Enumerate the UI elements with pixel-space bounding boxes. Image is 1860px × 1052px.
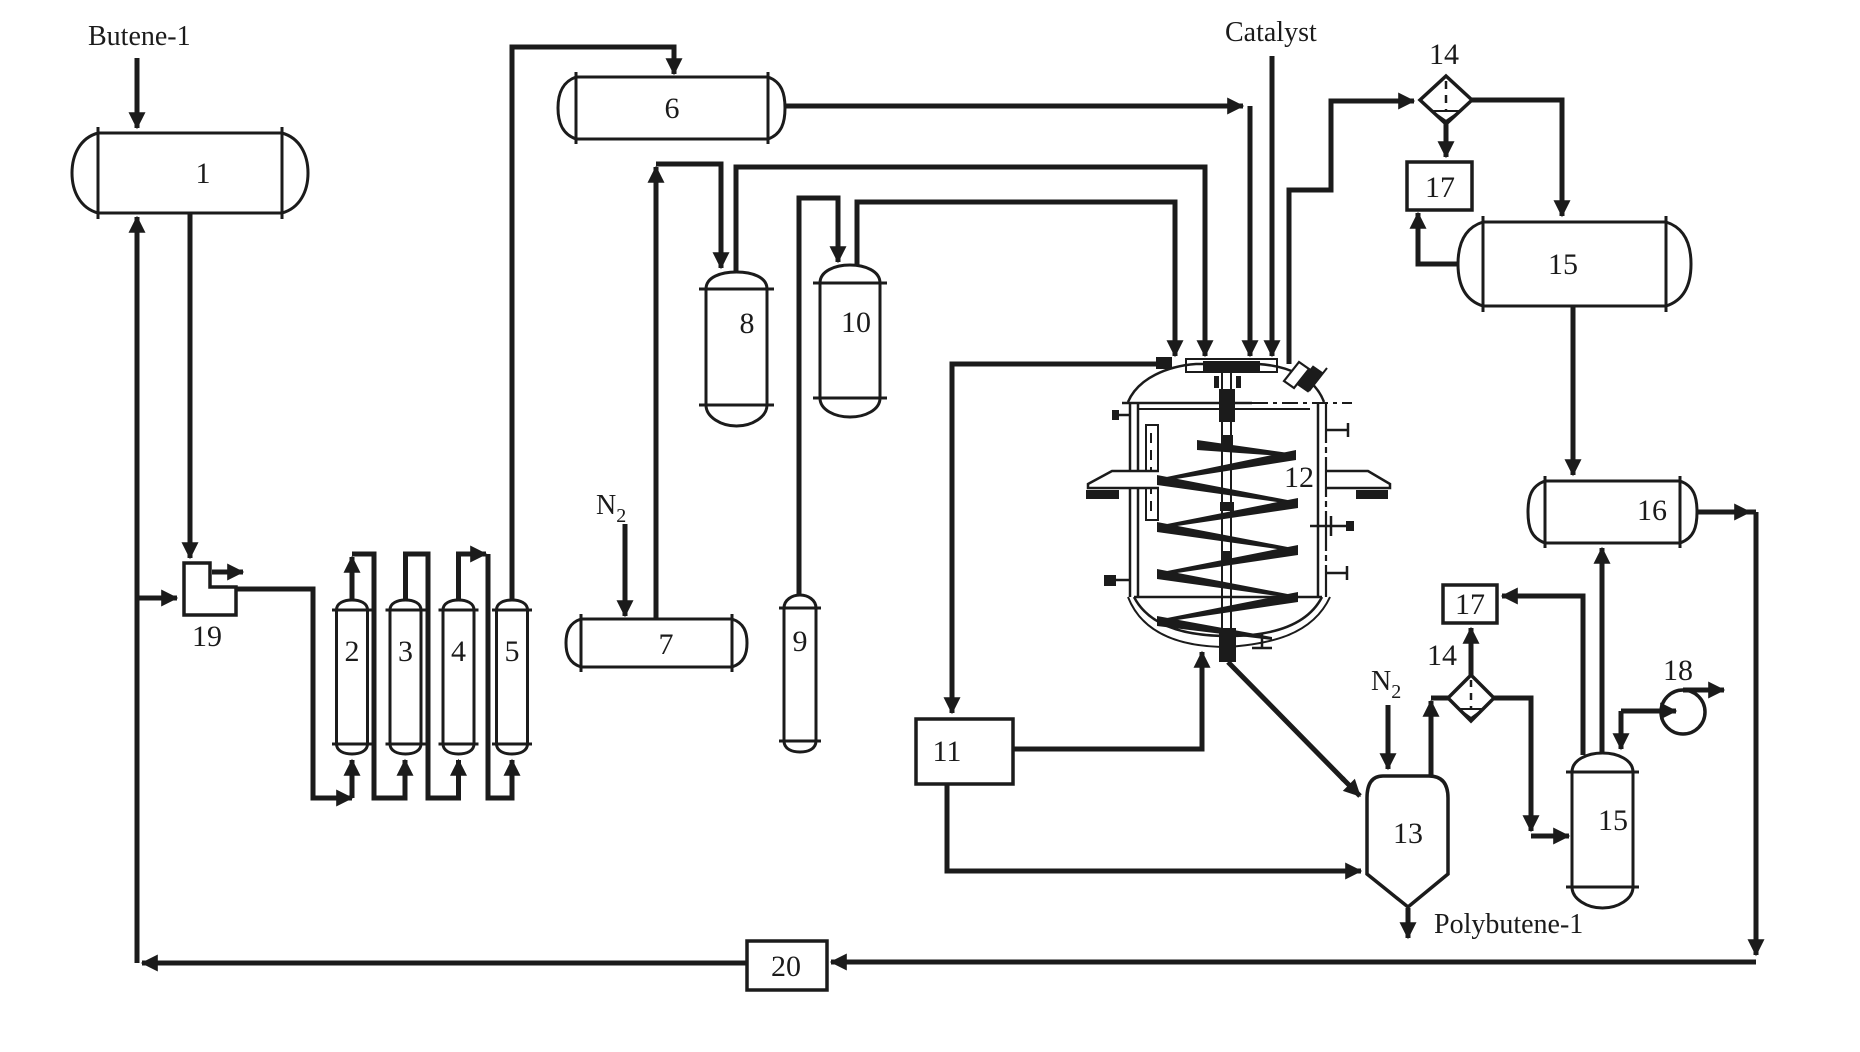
box 17 bottom [1443,585,1497,623]
wire filter14b to vessel 15b [1494,698,1531,810]
svg-text:4: 4 [451,635,466,668]
vessel 8 [699,272,774,426]
wire reactor to box 11 [952,364,1160,690]
reactor nozzle right lower [1326,566,1347,580]
wire reactor product to vessel 13 [1228,662,1344,780]
wire filter14 to vessel 15 [1472,100,1562,193]
svg-text:11: 11 [933,735,962,768]
wire column4 top to column5 bottom [459,554,466,600]
wire catalyst feed into reactor [1270,56,1275,330]
wire vessel16 to box 20 recycle [1697,510,1756,515]
column 4 [439,600,479,754]
svg-text:3: 3 [398,635,413,668]
svg-text:14: 14 [1429,38,1459,71]
wire vessel15b vapor to box 17b [1525,596,1583,755]
svg-text:N2: N2 [1371,666,1401,703]
wire box11 to vessel 13 [947,784,1338,871]
wire vessel7 to vessel8 [654,190,659,619]
wire box20 to vessel 1 recycle [165,961,747,966]
reactor nozzle left lower [1104,575,1116,586]
wire reactor gas to filter 14 [1289,101,1390,364]
wire pump suction from vessel 15b [1621,709,1652,714]
reactor support lug right [1327,471,1390,488]
wire column5 top to vessel 6 [512,47,674,600]
vessel 16 [1528,476,1697,548]
svg-text:N2: N2 [596,490,626,527]
wire vessel6 to reactor top [785,104,1220,109]
reactor nozzle right middle [1310,516,1346,536]
box 11 [916,719,1013,784]
svg-text:Butene-1: Butene-1 [88,21,191,52]
wire vessel1 to box19 [188,213,193,537]
reactor left inlet nozzle block [1156,357,1172,369]
filter 14 top [1420,76,1472,124]
svg-text:2: 2 [345,635,360,668]
box 20 [747,941,827,990]
box 19 [184,563,236,615]
wire N2 arrow into vessel 7 [623,524,628,592]
vessel 6 [558,72,785,144]
reactor nozzle right upper [1326,423,1348,437]
reactor drive hatch [1284,362,1309,388]
vessel 7 [566,614,747,672]
svg-text:9: 9 [793,625,808,658]
svg-text:19: 19 [192,620,222,653]
svg-text:14: 14 [1427,639,1457,672]
reactor bottom leg [1252,634,1272,648]
svg-text:13: 13 [1393,817,1423,850]
svg-text:Polybutene-1: Polybutene-1 [1434,909,1583,940]
agitator ribbon [1157,440,1298,640]
vessel 13 [1367,776,1448,907]
svg-text:15: 15 [1598,804,1628,837]
column 5 [492,600,532,754]
wire pump discharge [1683,688,1700,693]
svg-text:18: 18 [1663,654,1693,687]
reactor internal baffle [1146,425,1158,520]
reactor flange line [1122,402,1252,405]
svg-text:5: 5 [505,635,520,668]
arrow purge out of 19 [212,570,243,575]
svg-text:17: 17 [1455,588,1485,621]
wire Butene-1 feed arrow into vessel 1 [135,58,140,128]
wire vessel10 to reactor [857,202,1175,330]
vessel 9 [779,595,821,752]
wire column2 top to column3 bottom [350,580,355,600]
column 3 [386,600,426,754]
vessel 10 [813,265,887,417]
box 17 top [1407,162,1472,210]
svg-text:8: 8 [740,307,755,340]
wire 19 to column 2 bottom [236,589,330,798]
wire vessel8 to reactor [736,167,1205,330]
column 2 [332,600,372,754]
svg-text:17: 17 [1425,171,1455,204]
svg-text:1: 1 [196,157,211,190]
svg-text:Catalyst: Catalyst [1225,17,1317,48]
svg-text:10: 10 [841,306,871,339]
svg-text:7: 7 [659,628,674,661]
wire vessel15 to vessel16 [1571,306,1576,450]
wire N2 arrow into vessel 13 [1386,705,1391,748]
vessel 1 [72,127,308,219]
wire vessel13 to filter 14 bottom [1429,728,1434,776]
reactor bottom head [1134,596,1322,599]
vessel 15 top [1458,216,1691,312]
svg-text:12: 12 [1284,461,1314,494]
wire vessel9 to vessel10 [799,198,838,595]
reactor support lug left [1088,471,1159,488]
svg-text:6: 6 [665,92,680,125]
reactor 12 [1086,357,1390,648]
wire filter14 to box 17 [1444,124,1449,136]
reactor dome [1128,364,1324,402]
reactor nozzle left upper [1118,414,1131,417]
wire recycle tee into 19 [139,596,177,601]
reactor top plate [1186,359,1277,372]
pump 18 [1661,690,1705,734]
wire polybutene product arrow [1406,908,1411,916]
wire column3 top to column4 bottom [406,554,459,798]
agitator shaft [1214,373,1241,662]
wire box11 to reactor bottom [1013,675,1202,749]
svg-text:20: 20 [771,950,801,983]
wire filter14b to box 17b [1469,652,1474,675]
wire vessel15b to vessel16 [1600,573,1605,753]
svg-text:16: 16 [1637,494,1667,527]
wire vessel15 to box 17 [1418,236,1458,264]
filter 14 bottom [1448,675,1494,721]
reactor shell walls [1130,403,1138,597]
svg-text:15: 15 [1548,248,1578,281]
vessel 15 bottom [1566,753,1639,908]
